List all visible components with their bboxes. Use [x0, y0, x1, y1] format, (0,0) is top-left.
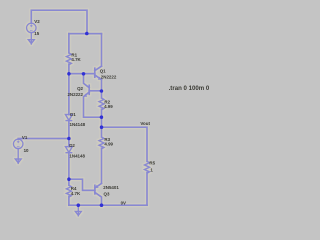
svg-text:2N5401: 2N5401	[103, 185, 119, 190]
svg-text:Vout: Vout	[140, 121, 150, 126]
svg-text:2N2222: 2N2222	[101, 75, 117, 80]
svg-text:4.99: 4.99	[104, 141, 113, 146]
svg-text:4.7K: 4.7K	[71, 191, 81, 196]
svg-text:Q2: Q2	[77, 86, 83, 91]
svg-text:2N2222: 2N2222	[67, 92, 83, 97]
svg-text:Q1: Q1	[100, 68, 106, 73]
svg-text:V2: V2	[34, 19, 40, 24]
svg-text:R5: R5	[149, 161, 155, 166]
svg-text:4.7K: 4.7K	[71, 57, 81, 62]
svg-text:V1: V1	[22, 135, 28, 140]
svg-text:15: 15	[34, 31, 39, 36]
svg-text:.tran 0 100m 0: .tran 0 100m 0	[169, 85, 210, 92]
svg-text:4.99: 4.99	[104, 104, 113, 109]
svg-text:D1: D1	[70, 112, 76, 117]
svg-text:1N4148: 1N4148	[70, 122, 86, 127]
svg-text:D2: D2	[69, 143, 75, 148]
svg-text:10: 10	[24, 148, 29, 153]
svg-text:1N4148: 1N4148	[69, 154, 85, 159]
svg-text:0V: 0V	[121, 201, 126, 206]
svg-text:Q3: Q3	[104, 192, 110, 197]
